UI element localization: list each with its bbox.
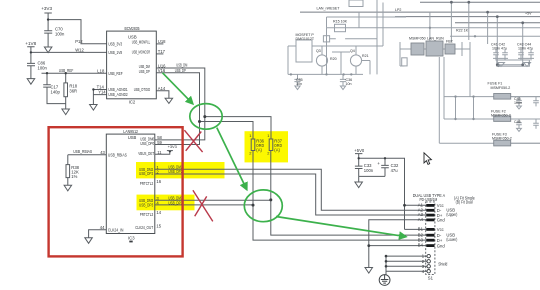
svg-text:Vcc: Vcc — [437, 227, 444, 232]
svg-text:+: + — [377, 161, 380, 166]
wire +1V8 to pin W12 — [31, 51, 107, 53]
node +3V3 junction — [47, 18, 49, 20]
green arrow 3 (node B to USB lower port) — [276, 217, 406, 237]
highlight USB_DM3/USB_DP3 labels — [137, 195, 195, 211]
svg-text:D+: D+ — [437, 238, 443, 243]
svg-text:C46: C46 — [514, 120, 521, 124]
wire v-bus g1 — [377, 0, 383, 74]
pin pad A1 Vcc — [426, 204, 434, 207]
svg-text:L18: L18 — [97, 69, 105, 74]
green arrow 1 (USB_DP to node A) — [163, 73, 193, 104]
wire USB_DP from IC2 — [156, 73, 199, 122]
op chip IC2 BCM2835 box — [107, 31, 157, 99]
pin stub T17 — [156, 53, 163, 55]
wire f extra v — [358, 12, 360, 28]
box fb6 — [497, 60, 530, 66]
ground (CLK24_IN) — [85, 238, 93, 244]
svg-text:43: 43 — [100, 150, 105, 155]
svg-text:100n: 100n — [364, 168, 374, 173]
svg-text:USB_1V8: USB_1V8 — [108, 50, 123, 55]
pin pad B4 Gnd — [426, 244, 434, 247]
ground (below R18) — [62, 109, 70, 115]
wire bus f5 — [450, 35, 540, 37]
green arrow 2 (node A to node B) — [217, 128, 247, 190]
wire USB_RBIAS — [68, 154, 107, 156]
cap f extra l — [533, 119, 539, 129]
wire Gnd upper — [369, 220, 427, 246]
wire f extra f — [400, 42, 411, 66]
capacitor fc8 — [528, 49, 534, 58]
wire CLK24_IN to ground — [89, 230, 107, 238]
fuse row3 body — [494, 140, 511, 146]
ground (below C86) — [27, 79, 35, 85]
transistor fq2 — [350, 55, 361, 66]
wire USB_DM from IC2 — [156, 68, 205, 117]
shield pin 3 — [427, 265, 430, 268]
svg-text:44: 44 — [100, 225, 105, 230]
wire v g5 — [497, 17, 522, 65]
wire Vcc upper — [405, 204, 427, 206]
highlight USB_DM2/USB_DP2 rows — [136, 162, 225, 178]
wire shield 1 — [386, 255, 427, 257]
node +1V8 junction — [30, 51, 32, 53]
capacitor fc6 — [502, 49, 508, 58]
svg-text:R22 1K: R22 1K — [456, 29, 469, 33]
svg-text:Gnd: Gnd — [437, 218, 446, 223]
svg-text:B3: B3 — [418, 237, 424, 242]
wire shield 2 — [386, 260, 427, 262]
wire VBUS_DET to +3V3 — [155, 151, 170, 154]
svg-text:FUSE F1: FUSE F1 — [488, 82, 503, 86]
wire USB_DP2 — [155, 174, 427, 215]
wire cap commons — [359, 176, 385, 182]
svg-text:USB_AGND2: USB_AGND2 — [108, 92, 128, 97]
resistor R37 — [269, 139, 273, 200]
svg-text:IC3: IC3 — [128, 236, 135, 241]
svg-text:B4: B4 — [418, 243, 424, 248]
component top edge — [349, 0, 363, 7]
faded junction dots — [290, 1, 531, 120]
svg-text:USB_DP2: USB_DP2 — [139, 171, 154, 176]
node Vcc upper junction — [403, 204, 406, 207]
svg-text:V16: V16 — [158, 68, 166, 73]
wire Vcc lower — [405, 228, 427, 230]
red X over USB_DM0/USB_DP0 — [184, 130, 202, 152]
capacitor C33 — [355, 158, 363, 176]
wire f extra e — [424, 42, 470, 97]
box fb2 — [323, 36, 329, 42]
wire f extra d — [327, 17, 407, 28]
svg-text:IC2: IC2 — [129, 100, 136, 105]
node USB_DP3 junction — [252, 204, 255, 207]
fuse row2 body — [494, 116, 511, 122]
pin pad B3 D+ — [426, 239, 434, 242]
svg-text:(A): (A) — [274, 147, 280, 152]
svg-text:14: 14 — [156, 210, 161, 215]
wire USB_DM down to USB_DM0 — [155, 117, 205, 140]
wire R37 down to lower D- — [271, 200, 427, 235]
svg-text:U18: U18 — [158, 39, 166, 44]
wire v g7 — [438, 57, 440, 143]
faded text smudges — [296, 7, 534, 141]
connector S1 body (dashed) — [426, 202, 435, 275]
svg-text:USB_DP3: USB_DP3 — [139, 203, 154, 208]
svg-text:USB_RBIAS: USB_RBIAS — [108, 153, 127, 158]
power +5V0 — [355, 154, 362, 159]
node USB_DM3 junction — [269, 198, 272, 201]
svg-text:36R: 36R — [69, 88, 77, 93]
capacitor fc5 — [493, 49, 499, 58]
wire bus f2 — [300, 11, 540, 13]
wire R36 down to lower D+ — [253, 205, 427, 240]
ferrite FB1 block — [445, 44, 455, 54]
wire v g3 — [429, 12, 431, 42]
wire USB_OTGID to ground — [156, 91, 169, 99]
wire fc gnd rail — [493, 57, 534, 59]
svg-text:CLK24_IN: CLK24_IN — [108, 227, 124, 232]
gnd f extra i — [498, 63, 531, 67]
wire Gnd lower — [369, 246, 427, 268]
node shield junction 1 — [385, 255, 388, 258]
svg-text:USB_DP3: USB_DP3 — [168, 200, 183, 205]
node USB_DP junction — [198, 120, 201, 123]
ground (below C70) — [44, 47, 52, 53]
svg-text:USB_3V3: USB_3V3 — [108, 41, 123, 46]
svg-text:(Upper): (Upper) — [446, 212, 457, 217]
wire rail f6 — [288, 73, 363, 75]
svg-text:+3V3: +3V3 — [168, 144, 177, 149]
box fb1 — [296, 40, 312, 62]
ground (AGND) — [90, 105, 98, 111]
svg-text:USB_REF: USB_REF — [59, 68, 74, 73]
svg-text:Gnd: Gnd — [437, 243, 446, 248]
svg-text:VBUS_DET: VBUS_DET — [138, 151, 154, 156]
wire f extra h — [496, 58, 531, 60]
svg-text:(B) Fit Dual: (B) Fit Dual — [456, 200, 473, 205]
svg-text:47u: 47u — [391, 168, 399, 173]
fuse row1 body — [494, 94, 511, 100]
wire v g8 — [443, 57, 445, 119]
svg-text:MSMF050: MSMF050 — [409, 37, 426, 41]
wire USB_DM2 — [155, 169, 427, 210]
svg-text:USB: USB — [128, 135, 137, 140]
svg-text:USB_DM: USB_DM — [176, 63, 187, 68]
node C32 junction — [384, 157, 386, 159]
wire fuse row 1 — [444, 96, 540, 98]
wire USB_DP down to USB_DP0 — [155, 122, 200, 145]
svg-text:A4: A4 — [418, 217, 424, 222]
svg-text:1%: 1% — [71, 174, 77, 179]
svg-text:BCM2835: BCM2835 — [125, 26, 140, 31]
green circle node B — [244, 190, 282, 222]
svg-text:10n: 10n — [346, 82, 352, 86]
wire f7 — [362, 45, 383, 47]
shield pin 1 — [427, 254, 430, 257]
svg-text:Y14: Y14 — [98, 90, 106, 95]
svg-text:B1: B1 — [418, 227, 424, 232]
transistor fq1 — [316, 55, 327, 66]
svg-text:USB_DP0: USB_DP0 — [140, 141, 154, 146]
svg-text:LAN_nRESET: LAN_nRESET — [317, 7, 341, 11]
capacitor fc4 — [516, 119, 522, 131]
svg-text:PRTCTL3: PRTCTL3 — [140, 212, 154, 217]
wire f extra j — [511, 97, 540, 144]
pin pad A3 D+ — [426, 214, 434, 217]
fuse F1 block — [411, 43, 424, 55]
svg-text:USB_DP2: USB_DP2 — [168, 169, 183, 174]
wire v g10 — [473, 97, 475, 119]
wires around fq — [288, 46, 383, 74]
box fb5 — [402, 58, 407, 66]
svg-text:LAN9512: LAN9512 — [123, 129, 138, 134]
fuse cluster boxes — [411, 41, 511, 146]
resistor R18 — [64, 73, 68, 109]
wire f extra b — [362, 61, 370, 75]
svg-text:R15 10K: R15 10K — [333, 20, 348, 24]
box fb3 — [335, 24, 346, 31]
svg-text:FB2: FB2 — [446, 40, 453, 44]
capacitor fc1 — [294, 74, 300, 89]
svg-text:USB_MONCSR: USB_MONCSR — [132, 49, 151, 54]
svg-text:A14: A14 — [158, 86, 166, 91]
wire bus f4 — [327, 27, 540, 29]
pin pad A4 Gnd — [426, 219, 434, 222]
ground (C33/C32) — [355, 182, 363, 188]
power +1V8 — [27, 47, 34, 53]
svg-text:140p: 140p — [51, 89, 61, 94]
svg-text:USB_MONPLL: USB_MONPLL — [132, 39, 151, 44]
svg-text:Q3: Q3 — [316, 49, 321, 53]
fuse F2 block — [426, 41, 443, 56]
svg-text:MSMF050-2: MSMF050-2 — [491, 86, 511, 90]
node USB_DM junction — [203, 115, 206, 118]
wire fuse row 2 — [444, 118, 540, 120]
shield pin 2 — [427, 260, 430, 263]
svg-text:LP2: LP2 — [395, 8, 401, 12]
svg-text:15: 15 — [156, 223, 161, 228]
wire USB_AGND2 — [93, 90, 106, 105]
svg-text:(Lower): (Lower) — [446, 237, 457, 242]
highlight box around R36/R37 — [245, 131, 289, 162]
pin pad B2 D- — [426, 234, 434, 237]
wire USB_REF — [42, 72, 107, 74]
ground (RBIAS) — [64, 185, 72, 191]
node Gnd junction — [367, 244, 370, 247]
svg-text:R21: R21 — [362, 54, 369, 58]
svg-text:MSMF050-2: MSMF050-2 — [491, 114, 511, 118]
svg-text:CLK24_OUT: CLK24_OUT — [135, 225, 153, 230]
pin pad A2 D- — [426, 209, 434, 212]
wire USB_DP3 — [155, 204, 253, 206]
mouse cursor — [424, 153, 431, 165]
power +3V3 (top) — [44, 13, 51, 20]
wire +3V3 to pin P12 — [48, 20, 107, 44]
svg-text:+5V0: +5V0 — [354, 148, 365, 153]
pin pad B1 Vcc — [426, 228, 434, 231]
resistor R38 — [66, 155, 70, 186]
red X over USB_DM3/USB_DP3 — [193, 190, 213, 221]
ground (USB Gnd) — [365, 268, 373, 274]
power +3V3 (VBUS_DET) — [167, 150, 173, 152]
svg-text:P12: P12 — [75, 39, 83, 44]
svg-text:100n: 100n — [514, 101, 522, 105]
node USB_REF cap junction — [46, 72, 48, 74]
capacitor fc7 — [518, 49, 524, 58]
wire v g9 — [455, 97, 457, 119]
node USB_REF res junction — [65, 72, 67, 74]
capacitor C17 — [43, 73, 65, 103]
wire v g4 — [451, 2, 487, 44]
svg-text:16: 16 — [156, 179, 161, 184]
svg-text:USB_REF: USB_REF — [108, 71, 123, 76]
svg-text:+1V8: +1V8 — [25, 41, 36, 46]
chassis ground (shield) — [379, 275, 390, 286]
wire v g2 — [326, 28, 328, 75]
capacitor fc2 — [340, 74, 346, 89]
svg-text:PD-USB/1M: PD-USB/1M — [420, 197, 438, 202]
wire bus f3b — [455, 22, 540, 24]
svg-text:PRTCTL2: PRTCTL2 — [140, 181, 154, 186]
wire fuse row 3 — [439, 142, 540, 144]
svg-text:100n: 100n — [38, 65, 48, 70]
green circle node A — [190, 104, 222, 130]
svg-text:USB_RBIAS: USB_RBIAS — [73, 149, 92, 154]
wire USB_AGND1 — [93, 89, 106, 91]
wire USB_DM3 — [155, 199, 271, 201]
svg-text:USB_DP: USB_DP — [139, 69, 150, 74]
wire f extra c — [330, 38, 377, 40]
svg-text:USB_OTGID: USB_OTGID — [134, 87, 151, 92]
wire v g6 — [522, 23, 524, 65]
svg-text:MSMF050-2: MSMF050-2 — [492, 137, 512, 141]
shield pin 4 — [427, 270, 430, 273]
node +5V0 junction — [358, 157, 360, 159]
svg-text:DMG1012T: DMG1012T — [296, 37, 315, 41]
wire +5V0 to Vcc pins — [359, 158, 405, 229]
power +3V3 marker — [168, 151, 171, 153]
svg-text:+3V3: +3V3 — [41, 6, 52, 11]
svg-text:+5V: +5V — [525, 12, 532, 16]
capacitor C86 — [27, 52, 35, 78]
svg-text:(A): (A) — [256, 147, 262, 152]
capacitor C70 — [44, 20, 52, 47]
svg-text:W12: W12 — [75, 48, 84, 53]
svg-text:59: 59 — [157, 140, 162, 145]
capacitor fc3 — [516, 97, 522, 109]
svg-text:100n: 100n — [55, 31, 65, 36]
chip IC3 LAN9512 box — [106, 134, 155, 233]
svg-text:USB_DP: USB_DP — [175, 68, 186, 73]
svg-text:LAN_RUN: LAN_RUN — [427, 37, 444, 41]
ground (OTGID) — [165, 98, 173, 103]
node AGND junction — [92, 88, 94, 90]
svg-text:100n 47u: 100n 47u — [492, 47, 507, 51]
svg-text:100n 47u: 100n 47u — [518, 47, 533, 51]
wire shield 4 — [386, 256, 427, 275]
capacitor C32 — [381, 158, 389, 176]
svg-text:Q4: Q4 — [350, 49, 355, 53]
svg-text:11: 11 — [157, 150, 162, 155]
wire bus f3 — [395, 16, 540, 18]
wire shield 3 — [386, 265, 427, 267]
wire f extra a — [332, 52, 350, 74]
wire USB_DP to R36 — [200, 122, 254, 140]
wire USB_DM to R37 — [205, 117, 271, 139]
cap f extra k — [533, 97, 539, 107]
svg-text:S1: S1 — [428, 276, 434, 281]
resistor R36 — [251, 139, 255, 205]
node shield junction 3 — [385, 265, 388, 268]
svg-text:Shield: Shield — [438, 261, 448, 266]
node shield junction 2 — [385, 260, 388, 263]
svg-text:T17: T17 — [158, 49, 166, 54]
pin stub U18 — [156, 43, 163, 45]
wire bus f1 — [420, 1, 540, 3]
svg-text:10n: 10n — [296, 82, 302, 86]
svg-text:R20: R20 — [330, 57, 337, 61]
